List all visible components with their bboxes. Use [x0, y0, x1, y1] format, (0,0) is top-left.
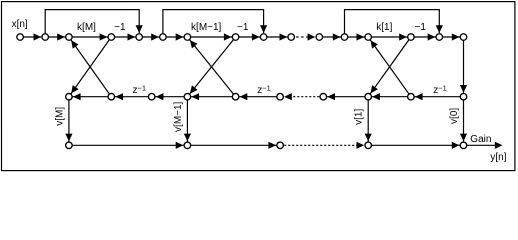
node N5 [136, 34, 143, 41]
wire node N14 to node N15 (-1 branch) with arrow [411, 33, 439, 40]
wire sum node S2 to S3 with arrow [187, 142, 280, 149]
node N2 [42, 34, 49, 41]
wire sum node S4 to S5 with arrow [368, 142, 463, 149]
node N8 [232, 34, 239, 41]
label k[M-1] [191, 22, 222, 33]
tap v[1] from P3 down with arrow [365, 97, 372, 146]
wire P3 to node M323 with arrow [323, 93, 368, 100]
svg-text:v[M−1]: v[M−1] [173, 101, 184, 132]
label -1 section 3 [414, 22, 426, 33]
wire x[n] input to node N2 with arrow [20, 33, 45, 40]
node N10 [288, 34, 295, 41]
node P2 [184, 93, 191, 100]
label -1 section 2 [237, 22, 249, 33]
sum node S3 [277, 142, 284, 149]
node M151 [148, 93, 155, 100]
node N13 [365, 34, 372, 41]
node N15 [436, 34, 443, 41]
node N6 [160, 34, 167, 41]
label -1 section 1 [114, 22, 126, 33]
svg-text:z−1: z−1 [433, 84, 447, 97]
label k[M] [77, 22, 96, 33]
svg-text:v[0]: v[0] [449, 108, 460, 124]
node N11 [316, 34, 323, 41]
svg-text:y[n]: y[n] [490, 152, 506, 163]
wire sum node S3 to S4 dotted with arrow [280, 142, 364, 149]
node Q1 [108, 93, 115, 100]
svg-text:z−1: z−1 [257, 84, 271, 97]
node Q2 [232, 93, 239, 100]
sum node S2 [184, 142, 191, 149]
label x[n] [12, 19, 28, 30]
svg-text:x[n]: x[n] [12, 19, 28, 30]
node N7 [184, 34, 191, 41]
tap v[0] from D0 down with arrow [460, 97, 467, 146]
wire Q1 to P1 with arrow [69, 93, 111, 100]
label v[M-1] [173, 101, 184, 132]
node N12 [341, 34, 348, 41]
wire Q3 to P3 with arrow [368, 93, 411, 100]
label z^-1 section 2 [257, 84, 271, 97]
svg-text:k[M]: k[M] [77, 22, 96, 33]
sum node S4 [365, 142, 372, 149]
border frame [2, 2, 515, 171]
label v[M] [54, 107, 65, 126]
label z^-1 section 1 [133, 84, 147, 97]
label v[0] [449, 108, 460, 124]
feedback rail section 1 (N2 up over to N5) with down arrow [45, 10, 143, 37]
svg-text:−1: −1 [114, 22, 126, 33]
wire sum node S1 to S2 with arrow [69, 142, 187, 149]
node M280 [277, 93, 284, 100]
svg-text:Gain: Gain [470, 134, 491, 145]
node P1 [66, 93, 73, 100]
node N14 [408, 34, 415, 41]
node N16 [460, 34, 467, 41]
wire output y[n] with arrow [464, 142, 503, 149]
label y[n] [490, 152, 506, 163]
wire M280 to Q2 (z^-1 segment) with arrow [236, 93, 281, 100]
wire node N12 to node N13 with arrow [345, 33, 369, 40]
diagonal Q1 to N3 with arrow [69, 37, 111, 97]
tap v[M] from P1 down with arrow [65, 97, 72, 146]
wire node N2 to node N3 with arrow [45, 33, 69, 40]
node Q3 [408, 93, 415, 100]
wire node N3 to node N4 (k[M] branch) with arrow [69, 33, 111, 40]
tap v[M-1] from P2 down with arrow [184, 97, 191, 146]
wire node N10 to node N11 dotted with arrow [291, 33, 315, 40]
svg-text:−1: −1 [414, 22, 426, 33]
diagonal N4 to P1 with arrow [69, 37, 111, 97]
label z^-1 section 3 [433, 84, 447, 97]
sum node S1 [66, 142, 73, 149]
diagonal Q2 to N7 with arrow [187, 37, 235, 97]
wire M151 to Q1 (z^-1 segment) with arrow [111, 93, 151, 100]
wire M323 to M280 dotted with arrow [284, 93, 323, 100]
wire node N7 to node N8 (k[M-1] branch) with arrow [187, 33, 235, 40]
wire node N9 to node N10 with arrow [264, 33, 292, 40]
diagonal Q3 to N13 with arrow [368, 37, 411, 97]
wire node N5 to node N6 with arrow [139, 33, 163, 40]
wire P2 to node M151 with arrow [152, 93, 188, 100]
wire D0 to Q3 (z^-1 segment) with arrow [411, 93, 464, 100]
wire node N16 down to delay node D0 with arrow [460, 37, 467, 97]
feedback rail section 2 (N6 up over to N9) with down arrow [163, 10, 267, 37]
node P3 [365, 93, 372, 100]
node N4 [108, 34, 115, 41]
wire node N11 to node N12 with arrow [319, 33, 344, 40]
svg-text:v[1]: v[1] [354, 109, 365, 125]
svg-text:k[M−1]: k[M−1] [191, 22, 222, 33]
label k[1] [376, 22, 392, 33]
svg-text:k[1]: k[1] [376, 22, 392, 33]
wire node N6 to node N7 with arrow [163, 33, 188, 40]
wire Q2 to P2 with arrow [187, 93, 235, 100]
diagonal N8 to P2 with arrow [187, 37, 235, 97]
node M323 [320, 93, 327, 100]
sum node S5 [460, 142, 467, 149]
node N9 [260, 34, 267, 41]
wire node N4 to node N5 (-1 branch) with arrow [111, 33, 139, 40]
diagonal N14 to P3 with arrow [368, 37, 411, 97]
svg-text:−1: −1 [237, 22, 249, 33]
label v[1] [354, 109, 365, 125]
wire node N15 to node N16 with arrow [439, 33, 463, 40]
node N1 input [17, 34, 24, 41]
feedback rail section 3 (N12 up over to N15) with down arrow [345, 10, 443, 37]
wire node N13 to node N14 (k[1] branch) with arrow [368, 33, 411, 40]
svg-text:z−1: z−1 [133, 84, 147, 97]
svg-text:v[M]: v[M] [54, 107, 65, 126]
node N3 [66, 34, 73, 41]
node D0 [460, 93, 467, 100]
wire node N8 to node N9 (-1 branch) with arrow [236, 33, 264, 40]
label Gain [470, 134, 491, 145]
